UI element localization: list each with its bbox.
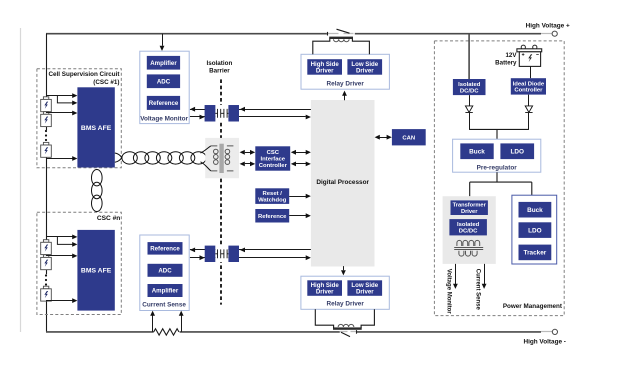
transformer T1 core xyxy=(219,144,223,173)
svg-text:DC/DC: DC/DC xyxy=(459,229,478,235)
svg-text:CSC #n: CSC #n xyxy=(97,215,120,222)
wire cell tap 3 to BMS AFE 1 xyxy=(46,112,73,114)
svg-text:Reference: Reference xyxy=(149,100,179,107)
battery cell B4 xyxy=(43,240,48,243)
transformer T2 secondary winding xyxy=(459,251,477,256)
wire bottom high-voltage rail middle segment xyxy=(180,331,340,333)
svg-text:Buck: Buck xyxy=(527,207,543,214)
svg-text:Driver: Driver xyxy=(356,289,374,296)
vertical twisted pair daisy-chain between CSC1 and CSCn xyxy=(92,170,103,186)
wire cell tap 2 to BMS AFE 1 xyxy=(57,96,72,103)
block Buck pre-regulator xyxy=(460,143,493,159)
wire cell tap 4 to BMS AFE 1 xyxy=(46,158,73,160)
svg-text:Watchdog: Watchdog xyxy=(258,197,287,203)
block Tracker xyxy=(519,245,552,261)
block Amplifier VM xyxy=(147,56,180,70)
wire left battery stack bus upper xyxy=(46,34,48,130)
battery cell B6 xyxy=(43,286,48,289)
svg-text:Buck: Buck xyxy=(469,149,485,156)
svg-text:Driver: Driver xyxy=(461,209,478,215)
dots series continuation CSCn xyxy=(45,274,47,276)
svg-text:Amplifier: Amplifier xyxy=(152,288,179,295)
relay coil K2 xyxy=(333,327,362,329)
svg-text:Power Management: Power Management xyxy=(503,303,563,310)
svg-text:LDO: LDO xyxy=(528,227,542,234)
svg-text:Reset /: Reset / xyxy=(263,191,283,197)
wire top rail to voltage monitor xyxy=(162,34,164,46)
wire left battery stack bus middle xyxy=(46,142,48,274)
relay coil K1 xyxy=(329,37,353,39)
svg-text:Ideal Diode: Ideal Diode xyxy=(513,81,545,87)
svg-text:BMS AFE: BMS AFE xyxy=(81,268,112,275)
IC Reset / Watchdog xyxy=(255,188,289,204)
dashed box Cell Supervision Circuit CSC #n xyxy=(37,212,121,314)
wire top high-voltage rail right segment xyxy=(355,33,541,35)
wire current sense output arrow xyxy=(484,264,486,284)
block Reference CS xyxy=(148,242,183,255)
terminal High Voltage + xyxy=(552,31,557,36)
wire transformer to CSC interface controller upper xyxy=(245,152,251,154)
wire join to pre-regulator xyxy=(469,129,529,139)
wire voltage monitor to digital processor upper xyxy=(190,109,311,111)
wire top rail branch to isolated dcdc xyxy=(468,34,470,79)
block High Side Driver bottom xyxy=(307,280,342,296)
IC CAN transceiver xyxy=(392,129,426,145)
wire digital processor to relay driver top xyxy=(344,95,346,101)
battery cell B5 xyxy=(43,255,48,258)
contactor switch S1 on top rail xyxy=(327,33,339,35)
diode D1 xyxy=(465,106,472,112)
wire reference to digital processor xyxy=(289,215,306,217)
block transformer driver housing xyxy=(443,196,496,264)
IC Transformer Driver xyxy=(451,200,488,215)
svg-text:Tracker: Tracker xyxy=(524,250,547,257)
block ADC CS xyxy=(148,264,183,277)
block LDO 2 xyxy=(519,222,552,238)
svg-text:Relay Driver: Relay Driver xyxy=(327,80,365,87)
transformer T1 housing xyxy=(205,138,239,178)
transformer T1 secondary winding xyxy=(227,146,234,171)
page edge faint line xyxy=(20,28,22,332)
svg-text:Battery: Battery xyxy=(495,59,517,66)
wire reset watchdog to digital processor xyxy=(289,196,306,198)
svg-text:Current Sense: Current Sense xyxy=(474,269,480,311)
wire ideal diode controller to diode D2 xyxy=(528,95,530,106)
svg-text:Barrier: Barrier xyxy=(209,68,230,75)
wire transformer to CSC interface controller lower xyxy=(245,163,251,165)
wire diode D2 to join xyxy=(528,113,530,130)
wire relay driver bottom to coil K2 xyxy=(315,309,374,328)
svg-text:ADC: ADC xyxy=(158,268,172,275)
block Reference VM xyxy=(147,96,180,110)
digital isolator U3 upper xyxy=(215,105,228,121)
svg-text:12V: 12V xyxy=(505,52,517,59)
IC CSC Interface Controller xyxy=(255,146,290,170)
battery cell B1 xyxy=(43,97,48,100)
svg-text:Voltage Monitor: Voltage Monitor xyxy=(446,269,452,315)
wire digital processor to relay driver bottom xyxy=(343,266,345,270)
terminal High Voltage - xyxy=(552,329,557,334)
svg-text:BMS AFE: BMS AFE xyxy=(81,125,112,132)
svg-text:Isolated: Isolated xyxy=(457,222,480,228)
svg-text:ADC: ADC xyxy=(157,78,171,85)
wire shunt tap right to current sense xyxy=(181,315,183,332)
dashed box Cell Supervision Circuit CSC #1 xyxy=(37,69,121,168)
wire pre-regulator to branches xyxy=(470,172,532,196)
wire voltage monitor output arrow xyxy=(455,264,457,284)
block Amplifier CS xyxy=(148,284,183,297)
svg-text:Relay Driver: Relay Driver xyxy=(327,300,365,307)
wire voltage monitor to digital processor lower xyxy=(190,116,306,118)
wire left battery stack bus lower xyxy=(46,286,48,332)
svg-text:Cell Supervision Circuit: Cell Supervision Circuit xyxy=(48,71,120,78)
svg-text:High Voltage +: High Voltage + xyxy=(526,22,570,29)
block Low Side Driver bottom xyxy=(347,280,382,296)
wire isolated dcdc to diode D1 xyxy=(469,95,471,106)
svg-text:Pre-regulator: Pre-regulator xyxy=(477,165,518,172)
dashed box Power Management xyxy=(434,41,564,316)
block High Side Driver top xyxy=(307,59,342,74)
shunt resistor R-shunt xyxy=(154,329,179,335)
wire cell tap 4 to BMS AFE 2 xyxy=(46,300,73,302)
svg-text:CAN: CAN xyxy=(402,135,415,141)
box point-of-load regulators xyxy=(512,195,557,264)
block Digital Processor xyxy=(311,100,375,267)
svg-text:(CSC #1): (CSC #1) xyxy=(93,79,119,86)
battery 12V icon xyxy=(521,45,525,49)
svg-text:Amplifier: Amplifier xyxy=(150,60,177,67)
wire diode D1 to join xyxy=(469,113,471,130)
svg-text:High Voltage -: High Voltage - xyxy=(523,339,565,346)
diode D2 xyxy=(525,106,532,112)
svg-text:Reference: Reference xyxy=(258,214,287,220)
wire bottom high-voltage rail right segment xyxy=(357,331,541,333)
horizontal twisted pair BMS AFE1 to transformer xyxy=(115,153,122,162)
wire current sense to digital processor lower xyxy=(190,257,306,259)
dots series continuation CSC1 xyxy=(45,130,47,132)
IC BMS AFE 2 xyxy=(77,230,114,311)
svg-text:Reference: Reference xyxy=(150,246,180,253)
IC Isolated DC/DC 1 xyxy=(453,79,486,95)
wire shunt tap left to current sense xyxy=(152,315,154,332)
block Buck 2 xyxy=(519,202,552,218)
IC Isolated DC/DC 2 xyxy=(449,219,487,235)
svg-text:Digital Processor: Digital Processor xyxy=(316,179,369,186)
wire cell tap 2 to BMS AFE 2 xyxy=(57,237,72,245)
svg-text:Controller: Controller xyxy=(259,163,288,169)
svg-text:Isolation: Isolation xyxy=(206,60,232,67)
box Voltage Monitor xyxy=(140,51,189,123)
contactor switch S2 on bottom rail xyxy=(340,331,348,333)
box Current Sense xyxy=(140,235,189,311)
svg-text:Interface: Interface xyxy=(261,157,286,163)
wire cell tap 1 to BMS AFE 2 xyxy=(46,236,73,238)
svg-text:Driver: Driver xyxy=(356,67,374,74)
svg-text:Voltage Monitor: Voltage Monitor xyxy=(140,116,188,123)
block Low Side Driver top xyxy=(347,59,382,74)
wire current sense to digital processor upper xyxy=(190,249,311,251)
box Relay Driver bottom xyxy=(301,276,389,309)
battery cell B3 xyxy=(43,142,48,145)
wire battery to ideal diode controller xyxy=(530,66,532,78)
wire bottom high-voltage rail left segment xyxy=(46,331,154,333)
isolation barrier dashed line xyxy=(220,79,222,304)
box Pre-regulator xyxy=(453,139,541,172)
svg-text:DC/DC: DC/DC xyxy=(460,88,479,94)
svg-text:Current Sense: Current Sense xyxy=(142,302,186,309)
svg-text:LDO: LDO xyxy=(510,149,524,156)
wire relay driver top to coil K1 xyxy=(313,39,370,55)
wire cell tap 1 to BMS AFE 1 xyxy=(46,95,73,97)
IC Ideal Diode Controller xyxy=(511,78,546,94)
wire digital processor to CAN xyxy=(379,137,388,139)
svg-text:Driver: Driver xyxy=(316,289,334,296)
wire CSC interface controller to digital processor lower xyxy=(295,163,306,165)
svg-text:Transformer: Transformer xyxy=(453,203,487,209)
transformer T2 core xyxy=(454,247,483,249)
svg-text:Isolated: Isolated xyxy=(458,82,481,88)
box Relay Driver top xyxy=(301,54,389,89)
svg-text:Controller: Controller xyxy=(514,88,543,94)
block ADC VM xyxy=(147,74,180,88)
transformer T1 primary winding xyxy=(211,146,218,171)
wire CSC interface controller to digital processor upper xyxy=(295,152,306,154)
svg-text:CSC: CSC xyxy=(267,150,280,156)
block LDO pre-regulator xyxy=(500,143,534,159)
IC Reference mid xyxy=(255,209,289,223)
wire top high-voltage rail left segment xyxy=(46,33,327,35)
IC BMS AFE 1 xyxy=(77,87,114,167)
battery cell B2 xyxy=(43,112,48,115)
svg-text:Driver: Driver xyxy=(316,67,334,74)
transformer T2 primary winding xyxy=(457,240,480,246)
wire cell tap 3 to BMS AFE 2 xyxy=(46,255,73,257)
wire twisted pair into transformer xyxy=(201,146,211,171)
